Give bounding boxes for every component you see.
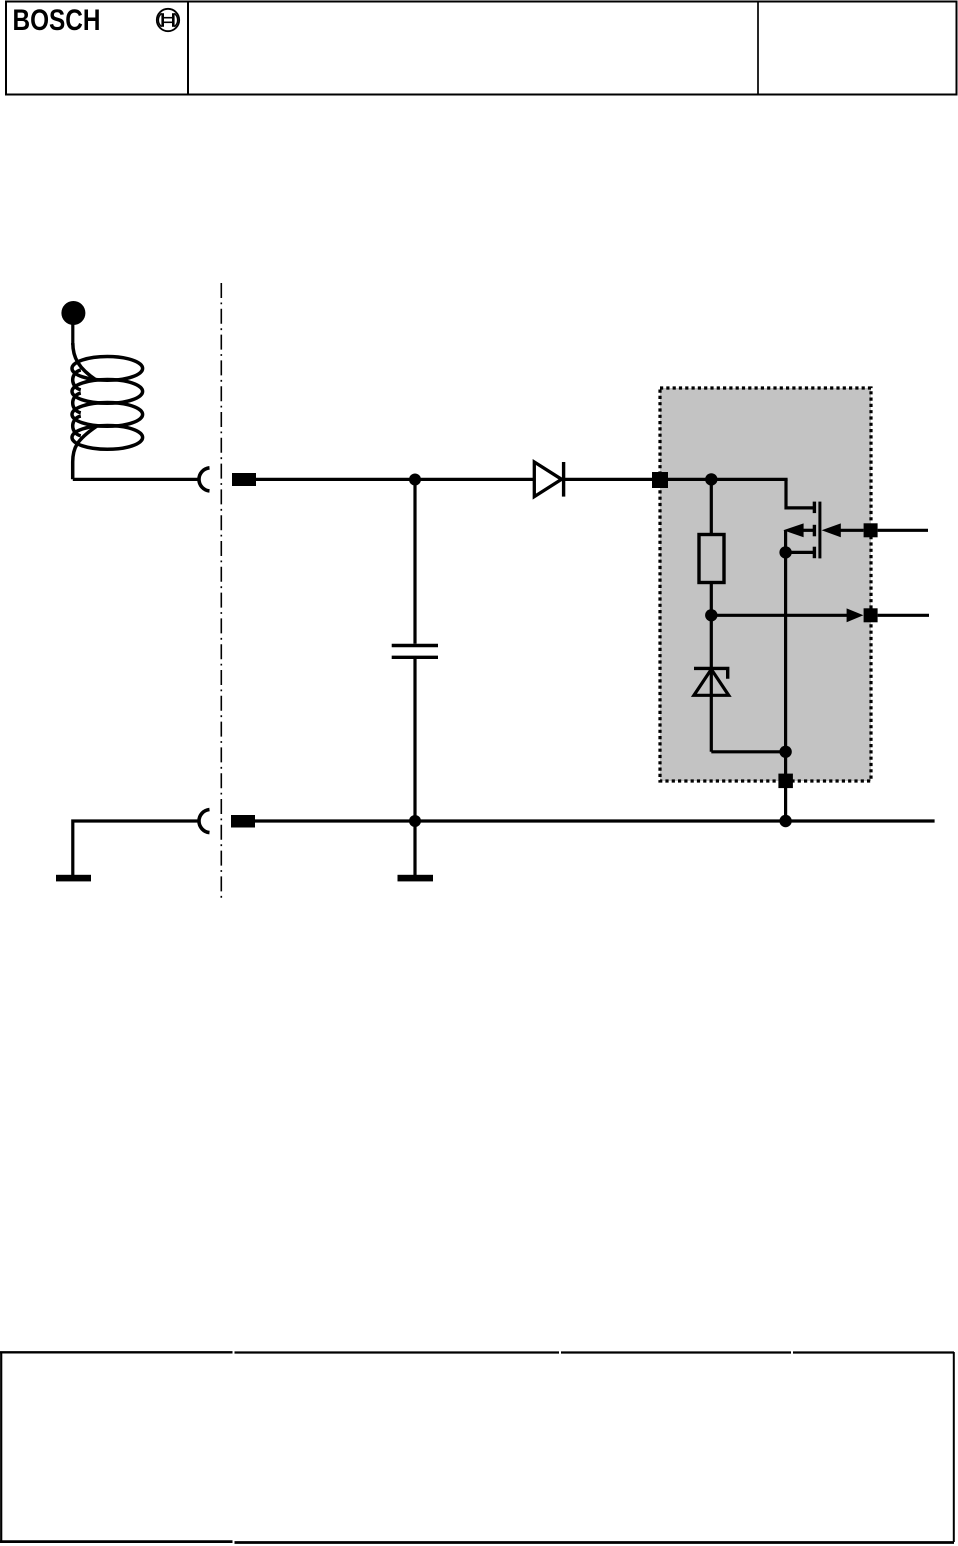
wire coil return	[73, 821, 199, 875]
sense output arrow	[847, 608, 864, 622]
footer table right border	[953, 1352, 955, 1542]
boundary dash-dot line	[220, 283, 222, 898]
terminal square sense	[864, 608, 878, 622]
MOSFET Q1 channel segment body	[813, 525, 816, 537]
wire resistor to node	[710, 583, 713, 616]
svg-text:BOSCH: BOSCH	[13, 4, 101, 37]
gate input arrow	[822, 523, 841, 537]
ground capacitor	[398, 875, 434, 882]
capacitor C1 bottom plate	[392, 656, 438, 659]
MOSFET Q1 channel segment source	[813, 547, 816, 559]
wire sense external	[878, 614, 929, 617]
wire module output down	[784, 752, 787, 821]
MOSFET Q1 source stub	[786, 551, 813, 554]
inductor L1 solenoid coil	[72, 343, 143, 479]
terminal pin bottom	[231, 815, 255, 828]
diode D1 cathode bar	[562, 462, 565, 497]
node junction source rail	[779, 746, 791, 758]
wire junction to resistor	[710, 479, 713, 535]
wire coil bottom lead to connector	[73, 478, 199, 481]
wire gate input	[839, 529, 864, 532]
header divider right cell	[757, 1, 759, 95]
MOSFET Q1 body arrow	[783, 523, 803, 537]
wire source down	[784, 552, 787, 751]
Bosch emblem armature	[158, 13, 177, 27]
wire body to source	[784, 530, 787, 552]
footer table left border	[0, 1352, 2, 1542]
zener diode Z1 cathode bar	[694, 668, 729, 678]
node junction resistor top	[705, 473, 717, 485]
wire capacitor top lead	[413, 480, 416, 644]
header divider left cell	[187, 1, 189, 95]
footer table top rule	[0, 1351, 954, 1353]
wire sense output	[711, 614, 849, 617]
MOSFET Q1 body stub	[800, 529, 813, 532]
connector socket bottom	[199, 810, 210, 833]
node junction zener top	[705, 609, 717, 621]
terminal square module bottom	[778, 774, 793, 789]
wire zener bottom to source rail	[711, 750, 785, 753]
node junction module ground	[779, 815, 791, 827]
wire top rail to diode	[256, 478, 534, 481]
header table frame	[6, 2, 957, 95]
node junction capacitor bottom rail	[409, 815, 421, 827]
wire gate external	[878, 529, 928, 532]
diode D1	[534, 462, 561, 497]
IC module shaded box	[660, 388, 871, 781]
wire diode to module	[565, 478, 660, 481]
terminal square gate	[864, 523, 878, 537]
wire through zener	[710, 615, 713, 752]
wire bottom rail	[255, 819, 935, 822]
node junction capacitor tap	[409, 474, 421, 486]
zener diode Z1 triangle	[694, 669, 729, 695]
MOSFET Q1 channel segment drain	[813, 502, 816, 513]
MOSFET Q1 gate electrode	[818, 502, 821, 559]
Bosch emblem circle	[157, 9, 179, 31]
footer table bottom rule	[0, 1540, 954, 1544]
terminal pin top	[232, 473, 256, 486]
wire capacitor bottom lead	[413, 659, 416, 875]
wire input to drain branch	[668, 478, 788, 481]
node junction source	[779, 546, 791, 558]
resistor R1	[699, 535, 724, 583]
capacitor C1 top plate	[392, 644, 438, 647]
connector socket top	[199, 468, 210, 491]
wire coil top lead	[71, 322, 74, 345]
ground left	[56, 875, 91, 882]
node: coil supply terminal	[61, 301, 85, 325]
terminal square module input	[652, 472, 668, 488]
wire drain branch to MOSFET	[786, 479, 813, 508]
